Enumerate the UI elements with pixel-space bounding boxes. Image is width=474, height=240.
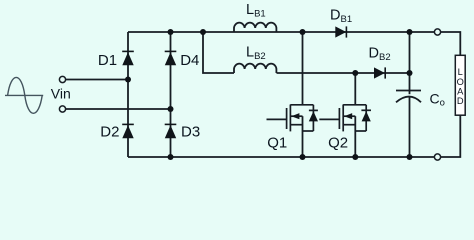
- node Q1 source: [300, 154, 306, 160]
- terminal Vin top: [59, 76, 65, 82]
- body diode of Q2: [361, 105, 371, 131]
- svg-text:D2: D2: [100, 123, 119, 140]
- terminal output bottom: [434, 154, 440, 160]
- wire Q1 drain: [302, 32, 304, 105]
- wire LB2 branch drop: [203, 32, 234, 73]
- wire right bridge leg: [170, 32, 172, 157]
- diode DB1: [335, 26, 346, 37]
- capacitor Co: [396, 91, 421, 103]
- wire rail2 LB2 to output: [277, 72, 410, 74]
- terminal Vin bottom: [59, 106, 65, 112]
- diode D3: [165, 124, 177, 138]
- wire bottom rail: [128, 156, 434, 158]
- terminal output top: [434, 29, 440, 35]
- wire bottom-right to load: [441, 115, 461, 157]
- node output top: [407, 29, 413, 35]
- load box: [455, 55, 465, 115]
- svg-text:D: D: [457, 96, 464, 106]
- mosfet Q1: [267, 105, 314, 132]
- wire top rail: [128, 31, 434, 33]
- diode D1: [122, 51, 134, 65]
- body diode of Q1: [309, 105, 318, 131]
- svg-text:D4: D4: [180, 52, 199, 69]
- svg-text:Q2: Q2: [328, 134, 348, 151]
- node rail2 output: [407, 70, 413, 76]
- wire output node vertical: [409, 32, 411, 94]
- wire top-right to load: [441, 32, 461, 55]
- wire left bridge leg: [127, 32, 129, 157]
- node cap bottom: [407, 154, 413, 160]
- diode D2: [122, 124, 134, 138]
- svg-text:L: L: [458, 67, 463, 77]
- arrow of Q1: [291, 113, 299, 119]
- node Q2 drain tap: [352, 70, 358, 76]
- node D3 bottom: [168, 154, 174, 160]
- node Q1 drain tap: [300, 29, 306, 35]
- node D4 top: [168, 29, 174, 35]
- arrow of Q2: [344, 113, 352, 119]
- wire Vin top: [66, 79, 128, 81]
- svg-text:Vin: Vin: [51, 85, 71, 101]
- wire Q2 source: [354, 116, 356, 157]
- wire Q1 source: [302, 116, 304, 157]
- diode DB2: [374, 67, 385, 78]
- mosfet Q2: [319, 105, 366, 132]
- node LB2 tap: [200, 29, 206, 35]
- svg-text:A: A: [457, 86, 464, 96]
- node Q2 source: [352, 154, 358, 160]
- wire Q2 drain: [354, 73, 356, 105]
- wire capacitor bottom lead: [409, 97, 411, 157]
- inductor LB1: [234, 23, 276, 32]
- node Vin top junction: [125, 77, 131, 83]
- svg-text:D1: D1: [98, 52, 117, 69]
- ac source sine: [5, 77, 43, 113]
- wire Vin bottom: [66, 108, 171, 110]
- svg-text:Q1: Q1: [267, 134, 287, 151]
- svg-text:D3: D3: [181, 123, 200, 140]
- svg-text:O: O: [457, 77, 464, 87]
- node Vin bottom junction: [168, 106, 174, 112]
- diode D4: [165, 51, 177, 65]
- inductor LB2: [234, 64, 276, 73]
